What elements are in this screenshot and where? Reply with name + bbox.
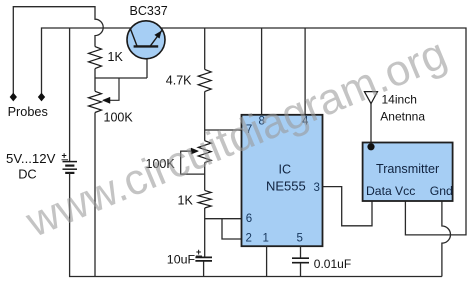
svg-text:6: 6	[246, 213, 252, 225]
IC U1 NE555 body	[242, 115, 323, 246]
svg-text:1: 1	[263, 233, 269, 245]
battery B1 plates	[63, 161, 78, 163]
svg-text:5: 5	[297, 233, 303, 245]
svg-text:1K: 1K	[108, 50, 124, 64]
wire R3 bottom, pin6 line, to C1	[205, 208, 242, 257]
potentiometer VR1 100K	[89, 91, 102, 112]
wire +V rail from probe2 to right rail down to Vcc line	[42, 28, 467, 235]
antenna wire	[370, 104, 372, 143]
svg-text:3: 3	[314, 182, 320, 194]
svg-text:5V...12V: 5V...12V	[6, 151, 56, 166]
wire pin4 lead	[304, 28, 306, 115]
wire pin2 link	[222, 219, 242, 239]
probe 1 tip	[10, 93, 16, 100]
capacitor C2 0.01uF plates	[292, 257, 309, 259]
svg-text:0.01uF: 0.01uF	[314, 257, 351, 271]
svg-text:2: 2	[246, 233, 252, 245]
svg-text:Gnd: Gnd	[430, 184, 453, 198]
svg-text:BC337: BC337	[130, 4, 168, 18]
wire C1 bottom lead	[203, 262, 205, 277]
probe 2 tip	[39, 93, 45, 100]
transistor Q1 BC337 body	[127, 21, 165, 59]
wire pin1 to ground rail	[266, 246, 268, 276]
wire VR1 bottom to ground rail	[94, 113, 96, 277]
resistor R2 4.7K	[198, 69, 211, 91]
svg-text:Anetnna: Anetnna	[380, 109, 425, 123]
wire 4.7K top lead	[204, 28, 206, 69]
wire pin3 to Data	[323, 187, 373, 226]
wire VR2 bottom to R3	[204, 163, 206, 191]
antenna symbol	[364, 92, 377, 104]
wire battery top lead	[69, 28, 71, 161]
svg-text:IC: IC	[279, 163, 292, 177]
resistor R3 1K	[198, 190, 211, 208]
svg-text:10uF: 10uF	[167, 253, 196, 267]
wire Gnd with hop over Vcc line	[442, 201, 451, 277]
svg-text:100K: 100K	[104, 110, 134, 124]
svg-text:Transmitter: Transmitter	[376, 162, 439, 176]
transmitter module body	[363, 143, 453, 202]
Q1 emitter arrow	[155, 31, 162, 38]
VR1 wiper wire	[105, 78, 120, 100]
potentiometer VR2 100K	[198, 141, 211, 163]
wire R2 bottom to pin7 junction and pot2	[205, 92, 242, 141]
wire R1 bottom to base junction	[95, 58, 147, 91]
svg-text:Vcc: Vcc	[395, 184, 415, 198]
svg-text:4.7K: 4.7K	[166, 74, 192, 88]
Q1 base bar	[134, 45, 159, 47]
wire pin8 lead	[261, 28, 263, 115]
wire probe1 top loop with hop over +V rail	[13, 7, 103, 94]
svg-text:NE555: NE555	[266, 179, 306, 194]
svg-text:+: +	[196, 247, 201, 257]
VR2 wiper arrow	[191, 148, 199, 154]
resistor R1 1K	[89, 47, 102, 69]
svg-text:Data: Data	[366, 184, 392, 198]
svg-text:DC: DC	[18, 167, 36, 182]
wire battery bottom lead and ground rail	[70, 173, 442, 277]
Q1 collector line	[131, 29, 138, 46]
wire C2 bottom lead	[300, 263, 302, 277]
antenna junction dot	[367, 143, 374, 150]
capacitor C1 10uF plates	[195, 256, 212, 258]
wire pin5 to C2	[300, 246, 302, 258]
VR1 wiper arrow	[103, 97, 111, 103]
Q1 emitter line	[150, 30, 163, 47]
svg-text:Probes: Probes	[8, 105, 48, 119]
VR2 wiper wire	[181, 151, 205, 174]
svg-text:1K: 1K	[178, 194, 194, 208]
svg-text:+: +	[62, 151, 67, 161]
